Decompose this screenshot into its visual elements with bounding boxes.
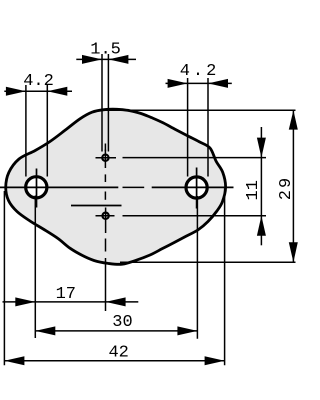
crosshair vertical hole left — [36, 169, 38, 208]
extension lines dimension 1.5 — [102, 54, 108, 152]
arrow 17 right — [106, 297, 126, 306]
dimension line 4.2 right — [166, 82, 232, 84]
arrow 29 bottom — [289, 242, 298, 262]
pin 1 (top) — [102, 155, 108, 161]
svg-text:1.5: 1.5 — [90, 41, 121, 60]
svg-text:4.2: 4.2 — [180, 62, 220, 81]
svg-text:4.2: 4.2 — [23, 72, 54, 91]
arrow 30 left — [35, 326, 55, 335]
dimension line 29 — [292, 110, 294, 262]
arrow 42 left — [4, 356, 24, 365]
extension line 11 bottom — [123, 215, 267, 217]
svg-text:11: 11 — [244, 180, 263, 200]
arrow 4.2 right — [168, 79, 188, 88]
centerline horizontal through holes — [0, 186, 234, 188]
pin 2 (bottom) — [102, 213, 108, 219]
arrow 1.5 — [82, 55, 102, 64]
extension line 11 top — [123, 157, 267, 159]
dimension line 11 — [260, 127, 262, 245]
reference line near pin 2 — [71, 205, 122, 207]
extension line shape left edge — [3, 191, 5, 365]
extension line 29 bottom — [120, 261, 296, 263]
crosshair vertical hole right — [196, 168, 198, 209]
extension lines dimension 4.2 right — [188, 78, 208, 177]
arrow 29 top — [289, 110, 298, 129]
extension line shape right edge — [224, 189, 226, 366]
dimension line 17 — [3, 301, 139, 303]
arrow 30 right — [177, 326, 197, 335]
extension lines dimension 4.2 left — [26, 85, 47, 177]
mounting hole left — [26, 177, 47, 198]
svg-text:29: 29 — [277, 176, 296, 200]
centerline vertical through pins — [104, 144, 106, 312]
dimension line 42 — [4, 360, 224, 362]
extension line hole left center — [34, 196, 36, 339]
arrow 11 bottom — [257, 216, 266, 236]
extension line hole right center — [196, 196, 198, 339]
dimension line 30 — [35, 330, 197, 332]
svg-text:42: 42 — [108, 343, 128, 362]
outline TO-3 flange body — [6, 109, 226, 264]
extension line 29 top — [103, 109, 296, 111]
arrow 17 left — [15, 297, 35, 306]
dimension line 1.5 — [76, 58, 136, 60]
svg-text:30: 30 — [112, 313, 132, 332]
svg-text:17: 17 — [56, 285, 76, 304]
dimension line 4.2 left — [4, 90, 72, 92]
arrow 4.2 left — [6, 87, 26, 96]
mounting hole right — [186, 177, 207, 198]
arrow 11 top — [257, 138, 266, 158]
arrow 42 right — [205, 356, 225, 365]
